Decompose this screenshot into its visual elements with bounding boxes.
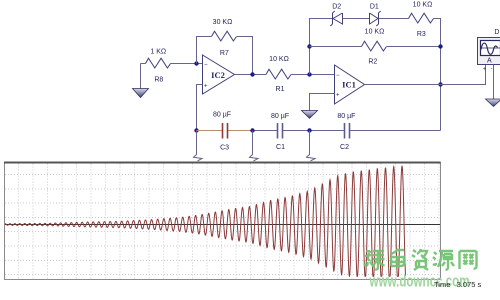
svg-text:+: + <box>204 84 208 90</box>
svg-text:C3: C3 <box>220 145 229 152</box>
svg-text:+: + <box>483 67 486 73</box>
resistor R2 <box>310 28 441 65</box>
svg-text:D: D <box>494 29 499 36</box>
svg-text:+: + <box>336 93 340 99</box>
ground GND3 (oscilloscope) <box>486 99 500 107</box>
wire IC1 noninverting input to ground <box>310 94 335 111</box>
wire feedback vertical x=309 <box>310 19 333 75</box>
svg-text:80 µF: 80 µF <box>271 113 289 120</box>
grapher grid <box>5 164 440 279</box>
capacitor C2 <box>337 113 355 151</box>
svg-text:C1: C1 <box>276 144 285 151</box>
node H (C3/C1 junction) <box>250 128 254 132</box>
bottom rail wire (capacitor bus) <box>253 130 441 132</box>
node G (IC1 output junction) <box>438 82 442 86</box>
wire oscilloscope ground lead <box>493 65 495 100</box>
svg-text:1 KΩ: 1 KΩ <box>150 48 166 55</box>
svg-text:R3: R3 <box>417 31 426 38</box>
svg-text:R8: R8 <box>154 77 163 84</box>
resistor R1 <box>266 56 291 93</box>
svg-text:D1: D1 <box>370 3 379 10</box>
wire R8 left lead <box>141 63 146 65</box>
svg-text:IC1: IC1 <box>342 80 356 90</box>
capacitor C3 (highlighted red) <box>197 112 253 152</box>
node B (C3 left junction) <box>194 128 198 132</box>
time axis <box>5 224 440 226</box>
svg-text:30 KΩ: 30 KΩ <box>213 19 233 26</box>
svg-text:C2: C2 <box>340 144 349 151</box>
node A (IC2 inverting input junction) <box>194 61 198 65</box>
svg-text:80 µF: 80 µF <box>337 113 355 120</box>
svg-text:10 KΩ: 10 KΩ <box>413 2 433 9</box>
wire R8 to node A <box>171 63 203 65</box>
svg-text:10 KΩ: 10 KΩ <box>269 56 289 63</box>
node D (feedback junction at IC1 input) <box>307 72 311 76</box>
op-amp IC2 <box>203 55 235 94</box>
wire D2 to D1 <box>343 18 370 20</box>
ground GND1 (left, below R8) <box>133 64 149 98</box>
capacitor C1 <box>271 113 289 151</box>
watermark logo 绿色资源网 <box>364 249 477 270</box>
svg-text:−: − <box>204 63 208 69</box>
svg-text:R1: R1 <box>276 86 285 93</box>
diode D2 <box>330 3 342 26</box>
svg-text:D2: D2 <box>332 3 341 10</box>
svg-text:-: - <box>491 66 493 72</box>
svg-text:IC2: IC2 <box>211 70 225 80</box>
ground GND2 (IC1 + input) <box>302 111 318 119</box>
wire feedback left vertical <box>197 37 212 64</box>
svg-text:−: − <box>336 73 340 79</box>
diode D1 <box>370 3 381 26</box>
wire scope probe 1 (node B to grapher) <box>194 131 203 161</box>
resistor R7 <box>212 19 237 57</box>
wire R7 right to IC2 output <box>237 37 253 75</box>
svg-text:80 µF: 80 µF <box>213 112 231 119</box>
wire R3 to right vertical rail <box>434 19 441 131</box>
node F (R2 right junction) <box>438 44 442 48</box>
oscilloscope U1 icon <box>478 29 500 72</box>
node C (IC2 output) <box>250 72 254 76</box>
svg-text:R2: R2 <box>368 58 377 65</box>
wire scope probe 2 (node H to grapher) <box>250 131 259 161</box>
svg-text:Time 3.075 s: Time 3.075 s <box>434 280 481 289</box>
wire R1 to IC1 inverting input <box>291 74 334 76</box>
wire IC2 output to node C <box>235 74 267 76</box>
node E (R2 row left junction) <box>307 44 311 48</box>
op-amp IC1 <box>335 65 365 104</box>
wire IC1 output to oscilloscope <box>365 65 486 85</box>
svg-text:R7: R7 <box>220 50 229 57</box>
node I (C1/C2 junction) <box>307 128 311 132</box>
svg-text:10 KΩ: 10 KΩ <box>365 28 385 35</box>
wire D1 to R3 <box>379 18 409 20</box>
grapher plot frame <box>4 163 441 280</box>
resistor R8 <box>146 48 171 83</box>
svg-text:A: A <box>487 58 492 65</box>
waveform trace channel A <box>5 166 406 276</box>
resistor R3 <box>409 2 434 38</box>
wire scope probe 3 (node I to grapher) <box>307 131 316 161</box>
wire IC2 noninverting input down to node B <box>197 85 203 131</box>
